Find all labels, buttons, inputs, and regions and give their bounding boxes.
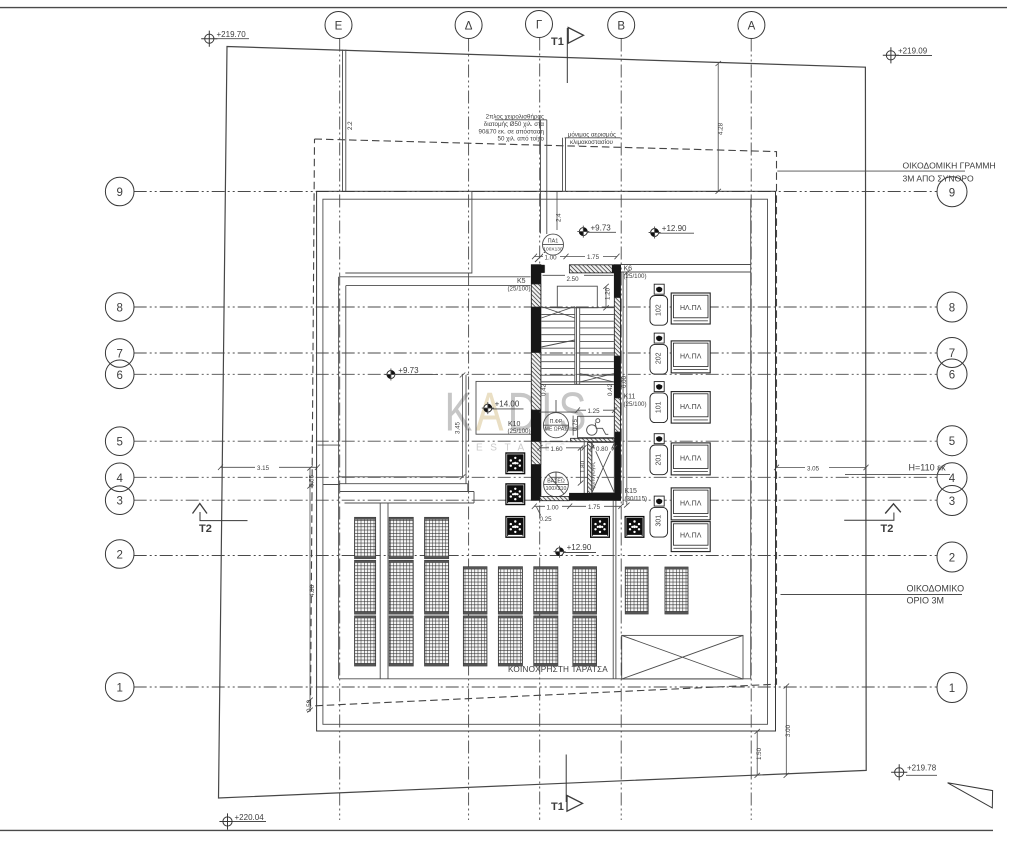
svg-text:4: 4: [116, 473, 123, 485]
K5 slab edge lines: [340, 277, 531, 286]
upper notch L line: [345, 192, 472, 274]
svg-text:+219.70: +219.70: [217, 30, 247, 39]
right grid circle 3: [937, 486, 967, 516]
svg-text:3.05: 3.05: [807, 465, 820, 472]
stair core: [531, 234, 623, 523]
svg-text:H=110 εκ: H=110 εκ: [909, 462, 947, 472]
svg-text:+14.00: +14.00: [495, 400, 520, 409]
svg-text:9: 9: [116, 187, 122, 199]
svg-text:ΗΛ.ΠΛ: ΗΛ.ΠΛ: [680, 455, 702, 462]
svg-text:102: 102: [656, 304, 663, 316]
right grid circle 5: [937, 426, 967, 456]
stair right wall: [614, 264, 621, 500]
svg-text:+9.73: +9.73: [398, 366, 419, 375]
left grid circle 9: [105, 177, 134, 206]
grid row line 3: [134, 499, 937, 501]
inner terrace bottom line: [339, 678, 751, 680]
svg-text:+12.90: +12.90: [567, 543, 592, 552]
svg-text:7: 7: [116, 349, 122, 361]
grid column line B: [620, 39, 622, 821]
dimension 1.50 bottom right: [755, 729, 764, 778]
dimension 0.80: [589, 445, 617, 451]
grid circle B: [608, 12, 635, 39]
svg-text:(30/115): (30/115): [625, 496, 648, 503]
svg-text:202: 202: [656, 352, 663, 364]
svg-text:3: 3: [116, 496, 122, 508]
machine room: [539, 441, 587, 443]
svg-text:2: 2: [116, 550, 122, 562]
svg-text:φωταγωγός: φωταγωγός: [590, 462, 597, 489]
stair left wall: [531, 264, 541, 500]
solar panel C3: [425, 616, 449, 666]
svg-text:0.42: 0.42: [607, 383, 614, 396]
svg-text:2.2: 2.2: [347, 121, 354, 130]
svg-text:301: 301: [656, 515, 663, 527]
solar panel D1: [463, 567, 487, 614]
svg-text:8: 8: [949, 303, 955, 315]
svg-text:3Μ ΑΠΟ ΣΥΝΟΡΟ: 3Μ ΑΠΟ ΣΥΝΟΡΟ: [903, 173, 975, 183]
right grid circle 9: [937, 177, 967, 207]
svg-text:1.75: 1.75: [588, 504, 601, 511]
svg-text:K10: K10: [508, 421, 521, 428]
svg-text:A: A: [748, 21, 756, 33]
dimension 3.15: [218, 463, 320, 472]
left grid circle 5: [105, 427, 134, 456]
svg-text:1.80: 1.80: [579, 460, 586, 473]
parapet joint lines left band: [317, 445, 339, 484]
stair interior dimension 2.50: [543, 274, 614, 276]
vent V1: [505, 452, 525, 474]
svg-text:T2: T2: [881, 523, 894, 535]
vent callout text: [565, 132, 621, 146]
svg-text:+219.09: +219.09: [898, 46, 928, 55]
grid circle Gamma: [526, 11, 553, 38]
handrail callout text: [479, 114, 547, 143]
building line dashed (OIKODOMIKI GRAMMI): [311, 139, 777, 706]
left grid circle 3: [105, 486, 134, 515]
svg-text:7: 7: [949, 348, 955, 360]
hatched band below WC: [571, 438, 615, 441]
K11 slab edge line: [622, 272, 624, 505]
svg-text:6.00: 6.00: [621, 375, 628, 388]
solar panel B2: [389, 560, 413, 614]
svg-text:0.55: 0.55: [309, 474, 316, 487]
door opening PA1: [545, 265, 570, 272]
X-box platform bottom right: [622, 635, 743, 679]
svg-text:1.50: 1.50: [756, 747, 763, 760]
callout OIKODOMIKI GRAMMI 3M APO SYNORO: [777, 160, 995, 183]
svg-text:0.25: 0.25: [540, 516, 553, 523]
WC room top line: [539, 411, 577, 413]
benchmark +219.09: [883, 46, 932, 63]
level marker +14.00: [482, 400, 524, 415]
svg-text:3.15: 3.15: [257, 465, 270, 472]
svg-text:5: 5: [116, 437, 122, 449]
left grid circle 2: [105, 540, 134, 569]
handrail leader lines: [541, 120, 547, 234]
K10 box: [476, 381, 532, 434]
svg-text:0.75: 0.75: [572, 418, 579, 431]
dimension 6.00: [621, 270, 630, 508]
solar panel C1: [425, 517, 449, 558]
left terrace inner vertical pair: [345, 286, 347, 484]
level marker +12.90 lower: [554, 543, 596, 558]
svg-text:5: 5: [949, 436, 955, 448]
building outer rectangle: [317, 191, 776, 731]
inner terrace right vertical: [750, 199, 752, 679]
stair block bottom wall: [540, 497, 569, 501]
svg-text:K11: K11: [624, 394, 636, 401]
svg-text:ΗΛ.ΠΛ: ΗΛ.ΠΛ: [680, 353, 702, 360]
svg-text:ΗΛ.ΠΛ: ΗΛ.ΠΛ: [680, 533, 702, 540]
grid column line A: [750, 39, 752, 821]
grid row line 8: [134, 306, 937, 308]
mid vertical edge at x466: [465, 375, 467, 484]
right grid circle 6: [937, 359, 967, 389]
svg-text:Δ: Δ: [465, 21, 473, 33]
stair roof opening rect: [557, 286, 597, 308]
svg-text:+219.78: +219.78: [907, 764, 937, 773]
grid row line 5: [134, 440, 937, 442]
dimension 1.60: [537, 445, 586, 451]
solar panel F1: [534, 567, 558, 614]
svg-text:50 χιλ. από τοίχο: 50 χιλ. από τοίχο: [498, 136, 545, 143]
left grid circle 8: [105, 293, 134, 322]
dimension 2.40 vertical above stair: [556, 192, 558, 230]
right grid circle 7: [937, 338, 967, 368]
grid row line 7: [134, 352, 937, 354]
svg-text:6: 6: [116, 370, 122, 382]
solar panel B3: [389, 616, 413, 666]
solar panel B1: [389, 517, 413, 558]
svg-text:1.60: 1.60: [551, 446, 564, 453]
heater group 301: [650, 488, 710, 552]
solar panel H2: [665, 567, 688, 614]
svg-text:2: 2: [949, 553, 955, 565]
svg-text:90&70 εκ. σε απόσταση: 90&70 εκ. σε απόσταση: [479, 128, 545, 135]
wheelchair symbol: [587, 419, 609, 435]
svg-text:T2: T2: [199, 523, 212, 535]
solar panel E1: [498, 567, 522, 614]
svg-text:2.4: 2.4: [556, 213, 563, 222]
vent V2: [505, 483, 525, 505]
svg-text:B: B: [617, 21, 625, 33]
K6 slab edge lines: [621, 265, 751, 273]
callout OIKODOMIKO ORIO 3M: [781, 583, 965, 605]
level marker +12.90 upper: [649, 224, 694, 239]
svg-text:9: 9: [949, 187, 955, 199]
solar panel G1: [573, 567, 597, 614]
solar panel G2: [573, 616, 597, 666]
grid row line 2: [134, 555, 937, 557]
svg-text:T1: T1: [551, 36, 564, 48]
svg-text:4.28: 4.28: [718, 122, 725, 135]
left grid circle 1: [105, 673, 134, 702]
svg-text:ΠΑ1: ΠΑ1: [548, 239, 559, 245]
watermark KADIS ESTATES: [445, 382, 587, 453]
svg-text:4.80: 4.80: [309, 584, 316, 597]
svg-text:Π.ΦΡ: Π.ΦΡ: [550, 419, 563, 425]
benchmark +220.04: [219, 813, 266, 830]
door tag PA1 circle: [543, 234, 564, 255]
svg-text:+9.73: +9.73: [591, 223, 612, 232]
right grid circle 4: [937, 463, 967, 493]
benchmark +219.70: [201, 30, 249, 47]
panel strip divider verticals: [380, 503, 388, 679]
svg-text:ΒΑΣΕΩ: ΒΑΣΕΩ: [547, 478, 565, 484]
svg-text:3.45: 3.45: [455, 421, 462, 434]
svg-text:+12.90: +12.90: [662, 224, 687, 233]
base tag circle: [544, 472, 569, 497]
dimension chain left 0.55 / 4.80 / 0.50: [306, 466, 316, 713]
grid row line 9: [134, 191, 937, 193]
dimension 1.00 / 1.75 stair top: [535, 256, 618, 258]
svg-text:ΗΛ.ΠΛ: ΗΛ.ΠΛ: [680, 404, 702, 411]
svg-text:(25/100): (25/100): [508, 428, 531, 435]
svg-text:1.00: 1.00: [547, 504, 560, 511]
grid column line G: [539, 38, 541, 821]
level marker +9.73 upper: [577, 223, 616, 237]
dimension 3.05: [774, 463, 869, 472]
wheelchair WC box: [578, 416, 615, 437]
dimension 3.45: [455, 373, 466, 480]
svg-text:1: 1: [116, 683, 122, 695]
svg-text:6: 6: [949, 370, 955, 382]
section marker T1 top: [551, 28, 584, 84]
dimension 4.28: [716, 61, 725, 194]
grid column line E: [339, 39, 341, 821]
svg-text:Γ: Γ: [536, 20, 543, 32]
svg-text:(25/100): (25/100): [508, 286, 531, 293]
elevator shaft interior with X brace: [592, 443, 615, 493]
grid column line D: [468, 39, 470, 821]
solar panel A3: [355, 616, 376, 666]
heater group 202: [650, 333, 710, 374]
dimension 1.25: [575, 407, 617, 413]
bottom dimension 1.00 / 1.75: [534, 505, 621, 507]
building parapet rectangle: [323, 199, 768, 724]
left grid circle 6: [105, 360, 134, 389]
wall lines above building at column E: [343, 50, 346, 192]
left grid circle 7: [105, 339, 134, 368]
svg-text:ΚΟΙΝΟΧΡΗΣΤΗ ΤΑΡΑΤΣΑ: ΚΟΙΝΟΧΡΗΣΤΗ ΤΑΡΑΤΣΑ: [508, 665, 608, 674]
svg-text:4: 4: [949, 473, 956, 485]
solar panel D2: [463, 616, 487, 666]
WC tag circle: [543, 413, 568, 438]
K11 line pair below stair: [613, 500, 616, 679]
north arrow triangle: [948, 783, 993, 808]
vent leader lines: [563, 138, 566, 192]
solar panel E2: [498, 616, 522, 666]
svg-text:1.00: 1.00: [545, 255, 558, 262]
svg-text:2.50: 2.50: [567, 276, 580, 283]
svg-text:8: 8: [116, 303, 122, 315]
machine room right wall line: [583, 442, 585, 497]
svg-text:διατομής Ø50 χιλ. στα: διατομής Ø50 χιλ. στα: [484, 121, 545, 128]
stair break diagonals: [541, 307, 575, 319]
svg-text:ΗΛ.ΠΛ: ΗΛ.ΠΛ: [680, 305, 702, 312]
grid row line 4: [134, 476, 937, 478]
section marker T2 right: [844, 504, 901, 535]
dimension 3.00 bottom right: [784, 684, 792, 778]
svg-text:ΟΙΚΟΔΟΜΙΚΗ ΓΡΑΜΜΗ: ΟΙΚΟΔΟΜΙΚΗ ΓΡΑΜΜΗ: [903, 160, 996, 170]
left terrace bottom edge lines: [339, 477, 474, 503]
svg-text:K5: K5: [517, 278, 526, 285]
svg-text:1.20: 1.20: [605, 287, 612, 300]
svg-text:ΟΙΚΟΔΟΜΙΚΟ: ΟΙΚΟΔΟΜΙΚΟ: [907, 583, 965, 593]
svg-text:1: 1: [949, 683, 955, 695]
vent V4: [590, 516, 610, 538]
solar panel C2: [425, 560, 449, 614]
svg-text:T1: T1: [551, 801, 564, 813]
heater group 102: [650, 284, 710, 325]
svg-text:201: 201: [656, 454, 663, 466]
solar panel F2: [534, 616, 558, 666]
stair top wall: [540, 265, 545, 273]
elevator shaft left hatched wall: [588, 443, 592, 494]
stair landing edge lines: [541, 382, 614, 385]
svg-text:100Χ130: 100Χ130: [543, 247, 563, 253]
dimension 0.75: [572, 416, 574, 436]
solar panel A2: [355, 560, 376, 614]
svg-text:3: 3: [949, 496, 955, 508]
dimension 1.20: [603, 284, 609, 311]
right grid circle 8: [937, 292, 967, 322]
grid row line 6: [134, 373, 937, 375]
section marker T1 bottom: [551, 755, 583, 814]
svg-text:0.80: 0.80: [596, 446, 609, 453]
vent V3: [505, 516, 525, 538]
page border top: [0, 7, 1007, 9]
solar panel H1: [625, 567, 648, 614]
svg-text:1.75: 1.75: [587, 254, 600, 261]
right grid circle 1: [937, 673, 967, 703]
svg-text:3.00: 3.00: [785, 724, 792, 737]
svg-text:0.42: 0.42: [541, 383, 548, 396]
label 0.25: [537, 507, 541, 516]
left grid circle 4: [105, 463, 134, 492]
page border bottom: [0, 829, 993, 831]
svg-text:+220.04: +220.04: [235, 813, 265, 822]
right grid circle 2: [937, 542, 967, 572]
stair center rail: [575, 308, 580, 385]
grid circle A: [738, 12, 765, 39]
svg-text:E: E: [335, 21, 343, 33]
heater group 201: [650, 434, 710, 475]
svg-text:100Χ210: 100Χ210: [546, 486, 567, 492]
dimension 1.80: [578, 446, 584, 486]
property boundary: [219, 47, 867, 799]
section marker T2 left: [193, 504, 248, 536]
vent V5: [625, 516, 645, 538]
benchmark +219.78: [891, 764, 937, 781]
solar panel A1: [355, 517, 376, 558]
grid circle Delta: [455, 12, 482, 39]
svg-text:101: 101: [656, 401, 663, 413]
svg-text:κλιμακοστασίου: κλιμακοστασίου: [570, 139, 614, 146]
svg-text:ΜΕ ΩΡΑΣ: ΜΕ ΩΡΑΣ: [545, 427, 568, 433]
grid circle E: [325, 12, 352, 39]
svg-text:K15: K15: [625, 488, 638, 495]
level marker +9.73 left: [385, 366, 438, 381]
stair treads: [541, 308, 575, 382]
svg-text:ΟΡΙΟ 3Μ: ΟΡΙΟ 3Μ: [907, 595, 945, 605]
inner terrace left vertical: [338, 277, 340, 679]
svg-text:0.50: 0.50: [306, 699, 313, 712]
svg-text:1.25: 1.25: [588, 408, 601, 415]
grid row line 1: [134, 686, 937, 688]
heater group 101: [650, 382, 710, 424]
svg-text:ΗΛ.ΠΛ: ΗΛ.ΠΛ: [680, 500, 702, 507]
